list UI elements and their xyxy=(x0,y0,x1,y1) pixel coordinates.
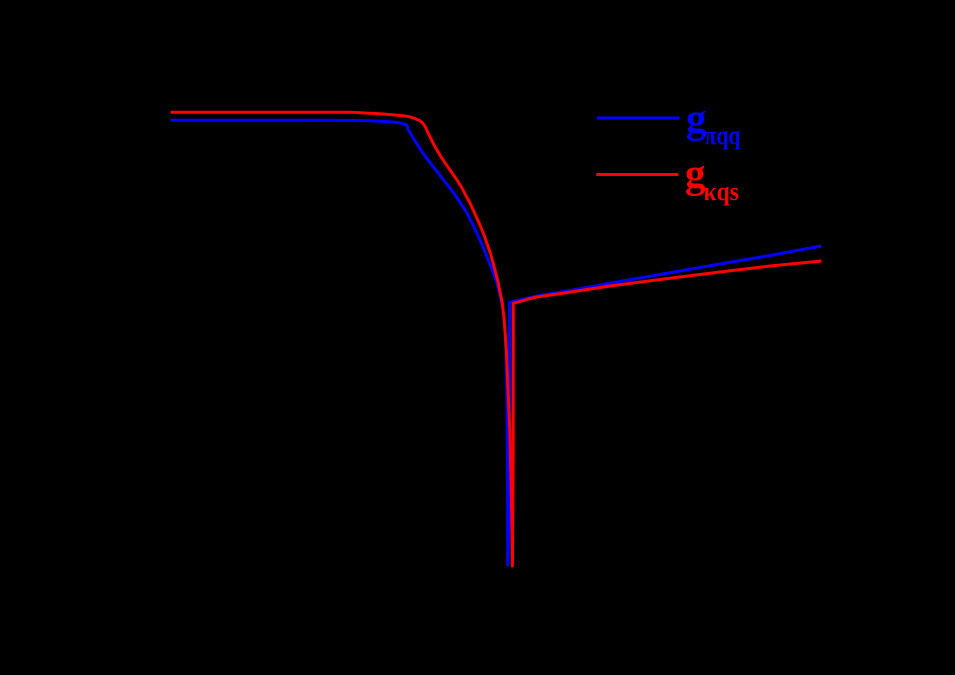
curve g_Kqs (red) xyxy=(171,112,822,566)
legend sample line g_Kqs (red) xyxy=(596,173,678,176)
legend sample line g_piqq (blue) xyxy=(597,117,680,120)
svg-text:πqq: πqq xyxy=(705,121,741,150)
curve g_piqq (blue) xyxy=(171,120,822,565)
svg-text:κqs: κqs xyxy=(704,177,740,206)
